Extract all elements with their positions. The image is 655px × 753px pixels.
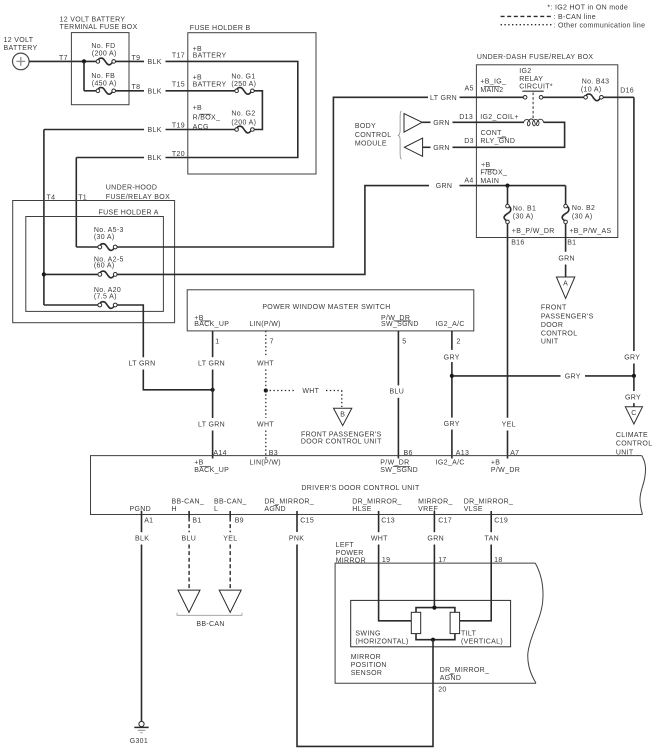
- svg-text:MODULE: MODULE: [355, 140, 387, 147]
- svg-text:A4: A4: [464, 178, 473, 185]
- pin label +B_PW_DR: [512, 228, 555, 235]
- svg-text:BACK_UP: BACK_UP: [194, 321, 229, 328]
- svg-text:A: A: [563, 281, 568, 288]
- svg-text:(30 A): (30 A): [513, 214, 534, 221]
- svg-text:T4: T4: [47, 195, 56, 202]
- wire GRY down to triangle C: [625, 376, 641, 407]
- pin label CONT RLY_GND: [480, 130, 515, 145]
- wire T15 to fuse G1: [188, 90, 235, 92]
- svg-text:BACK_UP: BACK_UP: [194, 467, 229, 474]
- BCM output triangle (D13): [404, 114, 422, 133]
- svg-text:GRY: GRY: [565, 373, 581, 380]
- svg-text:BLK: BLK: [135, 536, 149, 543]
- svg-text:RLY_GND: RLY_GND: [480, 138, 515, 145]
- svg-text:CLIMATE: CLIMATE: [616, 432, 648, 439]
- fuse No.G2 (200 A): [231, 111, 256, 133]
- svg-text:DOOR CONTROL UNIT: DOOR CONTROL UNIT: [301, 438, 382, 445]
- svg-text:POSITION: POSITION: [351, 662, 387, 669]
- svg-text:No. B43: No. B43: [582, 78, 610, 85]
- svg-text:SWING: SWING: [355, 631, 380, 638]
- svg-text:(10 A): (10 A): [581, 87, 602, 94]
- BB-CAN arrow triangle (YEL): [219, 590, 241, 612]
- label front passenger's door control unit (B): [301, 431, 382, 445]
- svg-text:MIRROR: MIRROR: [336, 558, 366, 565]
- fuse No.G1 (250 A): [231, 74, 256, 95]
- svg-text:IG2_A/C: IG2_A/C: [436, 321, 465, 328]
- svg-text:+B: +B: [481, 162, 490, 169]
- svg-text:12 VOLT BATTERY: 12 VOLT BATTERY: [60, 16, 126, 23]
- svg-text:PNK: PNK: [289, 536, 304, 543]
- svg-text:B16: B16: [511, 239, 524, 246]
- svg-text:UNDER-DASH FUSE/RELAY BOX: UNDER-DASH FUSE/RELAY BOX: [477, 54, 594, 61]
- label front passenger's door control unit (A): [541, 304, 594, 345]
- pin label +B BACK_UP (pin1): [194, 315, 229, 328]
- svg-text:MAIN: MAIN: [480, 178, 499, 185]
- junction dot T4/A2-5: [42, 272, 46, 276]
- svg-text:YEL: YEL: [223, 536, 237, 543]
- svg-text:POWER WINDOW MASTER SWITCH: POWER WINDOW MASTER SWITCH: [262, 304, 390, 311]
- svg-text:BB-CAN_: BB-CAN_: [172, 498, 205, 505]
- pin label +B BACK_UP (A14): [194, 459, 229, 474]
- svg-text:CONT_: CONT_: [481, 130, 506, 137]
- wire BLK T8-T15: [147, 88, 187, 95]
- svg-text:BLK: BLK: [147, 155, 161, 162]
- wire to fuse B2: [565, 186, 567, 205]
- svg-text:T1: T1: [78, 195, 87, 202]
- svg-text:H: H: [172, 506, 177, 513]
- wire C15 PNK loop to pin 20: [289, 511, 433, 746]
- wire pin 20 down: [432, 640, 434, 684]
- left power mirror box: [335, 542, 543, 683]
- tilt potentiometer: [450, 612, 460, 633]
- wire fuse FD to T9: [116, 60, 145, 62]
- wire G1 to G2: [254, 91, 262, 130]
- wire pin1 LT GRN to A14: [198, 331, 225, 459]
- wire A4 internal rail: [476, 185, 565, 187]
- svg-text:IG2_A/C: IG2_A/C: [436, 459, 465, 466]
- under-hood fuse/relay box: [13, 185, 175, 323]
- svg-text:17: 17: [438, 557, 446, 564]
- pin label DR_MIRROR_AGND (C15): [264, 498, 314, 513]
- svg-text:(250 A): (250 A): [231, 81, 256, 88]
- wire fuse B1 to B16: [507, 224, 509, 238]
- svg-text:5: 5: [402, 338, 406, 345]
- wire fuse FB to T8: [116, 90, 145, 92]
- svg-text:+B_P/W_DR: +B_P/W_DR: [512, 228, 555, 235]
- svg-text:LIN(P/W): LIN(P/W): [250, 459, 281, 466]
- svg-text:WHT: WHT: [257, 361, 274, 368]
- pin label P/W_DR SW_SGND (pin5): [381, 315, 419, 328]
- wire BLK T19 out: [44, 127, 188, 134]
- wire BLK T9-T17: [147, 59, 187, 66]
- svg-text:IG2_COIL+: IG2_COIL+: [480, 114, 519, 121]
- svg-text:20: 20: [438, 687, 446, 694]
- svg-text:DR_MIRROR_: DR_MIRROR_: [352, 498, 402, 505]
- svg-text:MIRROR_: MIRROR_: [418, 498, 453, 505]
- svg-text:VLSE: VLSE: [464, 506, 483, 513]
- pin label DR_MIRROR_AGND (20): [440, 667, 490, 682]
- svg-text:No. B1: No. B1: [513, 205, 536, 212]
- svg-text:TAN: TAN: [485, 536, 499, 543]
- wire pin17 to top rail: [433, 563, 435, 608]
- svg-text:B: B: [340, 412, 345, 419]
- svg-text:CIRCUIT*: CIRCUIT*: [519, 84, 553, 91]
- relay IG2 contact: [519, 68, 553, 119]
- svg-text:UNIT: UNIT: [541, 338, 559, 345]
- svg-text:GRY: GRY: [444, 354, 460, 361]
- swing potentiometer: [411, 612, 420, 633]
- wire A5-3 to A5 (LT GRN): [117, 95, 476, 247]
- svg-text:CONTROL: CONTROL: [616, 441, 653, 448]
- svg-text:: B-CAN line: : B-CAN line: [554, 14, 596, 21]
- under-dash fuse/relay box: [476, 54, 617, 238]
- svg-text:L: L: [214, 506, 218, 513]
- wire pin2 GRY to A13: [444, 331, 460, 459]
- svg-text:PGND: PGND: [130, 506, 152, 513]
- svg-text:LT GRN: LT GRN: [198, 422, 225, 429]
- pin label +B BATTERY (T17): [193, 46, 227, 60]
- svg-text:LT GRN: LT GRN: [198, 361, 225, 368]
- svg-text:(60 A): (60 A): [94, 263, 115, 270]
- svg-text:A5: A5: [465, 86, 474, 93]
- svg-text:BODY: BODY: [355, 123, 376, 130]
- wire D16 down right side: [624, 97, 640, 376]
- svg-text:FRONT PASSENGER'S: FRONT PASSENGER'S: [301, 431, 382, 438]
- wire B43 to D16: [603, 96, 634, 98]
- svg-text:A1: A1: [144, 517, 153, 524]
- svg-text:+B: +B: [491, 459, 500, 466]
- junction dot A4 rail: [505, 184, 509, 188]
- svg-text:7: 7: [270, 338, 274, 345]
- junction dot GRY pin2: [450, 374, 454, 378]
- svg-text:C17: C17: [438, 517, 452, 524]
- fuse holder B box: [188, 25, 316, 174]
- label mirror position sensor: [351, 654, 387, 677]
- pin label +B BATTERY (T15): [193, 74, 227, 88]
- fuse holder A box: [26, 209, 164, 311]
- wire pin7 WHT dotted to B3: [257, 331, 274, 459]
- svg-text:No. B2: No. B2: [572, 205, 595, 212]
- svg-text:DRIVER'S DOOR CONTROL UNIT: DRIVER'S DOOR CONTROL UNIT: [301, 485, 420, 492]
- svg-text:No. G2: No. G2: [231, 111, 255, 118]
- wire A2-5 to A4 (GRN): [117, 183, 476, 274]
- svg-text:+B_P/W_AS: +B_P/W_AS: [569, 228, 611, 235]
- wire contact to fuse B43: [543, 96, 584, 98]
- wire pin19 into sensor: [379, 563, 412, 621]
- wire A20 LT GRN down: [117, 305, 213, 390]
- pin label DR_MIRROR_VLSE (C19): [464, 498, 514, 513]
- svg-text:BLU: BLU: [389, 388, 404, 395]
- svg-text:GRN: GRN: [558, 255, 575, 262]
- svg-text:SENSOR: SENSOR: [351, 670, 383, 677]
- svg-text:(7.5 A): (7.5 A): [94, 294, 117, 301]
- connector triangle B: [334, 408, 352, 425]
- svg-text:No. FD: No. FD: [91, 43, 115, 50]
- svg-text:B1: B1: [192, 517, 201, 524]
- svg-text:BLK: BLK: [147, 88, 161, 95]
- svg-text:D16: D16: [620, 87, 634, 94]
- svg-text:(HORIZONTAL): (HORIZONTAL): [355, 639, 408, 646]
- pin label +B R/BOX_ACG: [193, 105, 221, 131]
- svg-text:No. A5-3: No. A5-3: [94, 227, 124, 234]
- svg-text:*: IG2 HOT in ON mode: *: IG2 HOT in ON mode: [547, 5, 628, 12]
- svg-text:FRONT: FRONT: [541, 304, 567, 311]
- svg-text:GRN: GRN: [427, 536, 444, 543]
- pin label +B P/W_DR (A7): [491, 459, 520, 474]
- pin label +B_P/W_AS: [569, 228, 611, 235]
- pin label P/W_DR SW_SGND (B6): [380, 459, 418, 474]
- svg-text:F/BOX_: F/BOX_: [480, 170, 507, 177]
- fuse No.A20 (7.5A): [44, 287, 121, 308]
- svg-text:+B: +B: [193, 74, 202, 81]
- svg-text:(450 A): (450 A): [92, 80, 117, 87]
- svg-text:2: 2: [457, 338, 461, 345]
- wire C19 TAN to pin 18: [485, 511, 499, 563]
- svg-text:G301: G301: [130, 738, 148, 745]
- svg-text:DR_MIRROR_: DR_MIRROR_: [464, 498, 514, 505]
- svg-text:A7: A7: [510, 450, 519, 457]
- wire A1 BLK to ground: [135, 511, 149, 721]
- wire T19 down to T4: [43, 130, 45, 306]
- svg-text:UNDER-HOOD: UNDER-HOOD: [106, 185, 158, 192]
- BCM input triangle (D3): [404, 138, 422, 156]
- svg-text:LT GRN: LT GRN: [128, 361, 155, 368]
- svg-text:(30 A): (30 A): [572, 213, 593, 220]
- svg-text:GRY: GRY: [625, 394, 641, 401]
- pin label MIRROR_VREF (C17): [418, 498, 453, 513]
- relay coil IG2: [524, 119, 544, 126]
- svg-text:DR_MIRROR_: DR_MIRROR_: [264, 498, 314, 505]
- svg-text:1: 1: [215, 338, 219, 345]
- svg-text:FUSE HOLDER A: FUSE HOLDER A: [99, 209, 159, 216]
- wire C13 WHT to pin 19: [371, 511, 388, 563]
- svg-text:C: C: [631, 410, 636, 417]
- fuse No.A5-3 (30A): [76, 227, 123, 251]
- svg-text:(30 A): (30 A): [94, 234, 115, 241]
- legend B-CAN dashed sample: [501, 14, 596, 21]
- svg-text:WHT: WHT: [302, 388, 319, 395]
- svg-text:YEL: YEL: [502, 421, 516, 428]
- svg-text:(200 A): (200 A): [231, 119, 256, 126]
- pin label BB-CAN_H (B1): [172, 498, 205, 513]
- connector triangle C: [625, 407, 642, 424]
- svg-text:HLSE: HLSE: [352, 506, 372, 513]
- wire B1 BLU dashed: [181, 511, 196, 589]
- fuse No.FB (450 A): [91, 73, 116, 94]
- svg-text:R/BOX_: R/BOX_: [193, 115, 221, 122]
- svg-text:MAIN2: MAIN2: [480, 87, 503, 94]
- svg-text:WHT: WHT: [371, 536, 388, 543]
- svg-text:BATTERY: BATTERY: [4, 45, 38, 52]
- svg-text:BLK: BLK: [147, 59, 161, 66]
- svg-text:BB-CAN_: BB-CAN_: [214, 498, 247, 505]
- svg-text:BATTERY: BATTERY: [193, 81, 227, 88]
- junction dot T7 branch: [82, 59, 86, 63]
- svg-text:LEFT: LEFT: [336, 542, 355, 549]
- svg-text:GRN: GRN: [436, 183, 453, 190]
- junction dot LT GRN / pin1: [211, 388, 215, 392]
- svg-text:No. G1: No. G1: [231, 74, 255, 81]
- wire A5 to relay contact: [476, 96, 523, 98]
- wire BLK T20 out: [76, 155, 188, 162]
- fuse No.A2-5 (60A): [44, 256, 124, 278]
- wire B9 YEL dashed: [223, 511, 237, 589]
- wire G2 to T19: [188, 129, 235, 131]
- svg-text:GRY: GRY: [624, 354, 640, 361]
- svg-text:T17: T17: [172, 53, 185, 60]
- svg-text:IG2: IG2: [519, 68, 531, 75]
- svg-text:GRN: GRN: [433, 120, 450, 127]
- wire T17 internal to T20: [188, 61, 298, 157]
- legend other-communication dotted sample: [501, 22, 646, 29]
- label swing (horizontal): [355, 631, 408, 646]
- svg-text:C15: C15: [300, 517, 314, 524]
- svg-text:GRN: GRN: [433, 145, 450, 152]
- svg-text:T8: T8: [132, 84, 141, 91]
- junction dot GRY right: [632, 374, 636, 378]
- svg-text:SW_SGND: SW_SGND: [380, 467, 418, 474]
- svg-text:TERMINAL FUSE BOX: TERMINAL FUSE BOX: [60, 24, 138, 31]
- svg-text:: Other communication line: : Other communication line: [554, 22, 646, 29]
- svg-text:B1: B1: [567, 239, 576, 246]
- svg-text:+B: +B: [193, 105, 202, 112]
- power window master switch box: [187, 290, 474, 331]
- svg-text:WHT: WHT: [257, 422, 274, 429]
- svg-text:DR_MIRROR_: DR_MIRROR_: [440, 667, 490, 674]
- pin label +B_IG MAIN2: [480, 79, 506, 95]
- wire fuse B2 to B1 pin: [565, 224, 567, 238]
- svg-text:ACG: ACG: [193, 124, 209, 131]
- wire WHT dotted branch to triangle B: [266, 388, 342, 407]
- wire C17 GRN to pin 17: [427, 511, 444, 563]
- svg-text:D13: D13: [459, 114, 473, 121]
- svg-text:12 VOLT: 12 VOLT: [4, 37, 34, 44]
- pin label BB-CAN_L (B9): [214, 498, 247, 513]
- svg-text:DOOR: DOOR: [541, 322, 563, 329]
- svg-text:+B_IG_: +B_IG_: [480, 79, 506, 86]
- svg-text:No. FB: No. FB: [91, 73, 115, 80]
- label climate control unit: [616, 432, 653, 456]
- junction dot WHT branch: [264, 388, 268, 392]
- svg-text:LT GRN: LT GRN: [430, 95, 457, 102]
- wire GRN D13: [422, 120, 476, 127]
- wire battery to T7: [29, 60, 96, 62]
- pin label DR_MIRROR_HLSE (C13): [352, 498, 402, 513]
- svg-text:C13: C13: [381, 517, 395, 524]
- svg-text:T15: T15: [172, 82, 185, 89]
- BB-CAN underline bracket: [177, 613, 242, 616]
- ground G301: [130, 721, 149, 745]
- wire pin18 into sensor: [460, 563, 492, 621]
- label tilt (vertical): [461, 631, 503, 646]
- mirror position sensor box: [351, 600, 511, 646]
- svg-text:AGND: AGND: [440, 675, 462, 682]
- svg-text:(200 A): (200 A): [92, 50, 117, 57]
- wire to fuse B1: [507, 186, 509, 205]
- svg-text:FUSE HOLDER B: FUSE HOLDER B: [190, 25, 251, 32]
- sensor top rail: [416, 608, 455, 613]
- svg-text:B9: B9: [235, 517, 244, 524]
- wire pin5 BLU to B6: [389, 331, 404, 459]
- svg-text:C19: C19: [494, 517, 508, 524]
- svg-text:19: 19: [382, 557, 390, 564]
- body control module bracket: [355, 111, 402, 160]
- wire B16 YEL down to A7: [502, 238, 516, 459]
- svg-text:18: 18: [494, 557, 502, 564]
- svg-text:BATTERY: BATTERY: [193, 52, 227, 59]
- sensor bottom rail: [416, 634, 455, 640]
- junction dot top rail: [432, 606, 436, 610]
- fuse No.B43 (10 A): [581, 78, 609, 100]
- svg-text:AGND: AGND: [264, 506, 286, 513]
- svg-text:LIN(P/W): LIN(P/W): [249, 321, 280, 328]
- svg-text:TILT: TILT: [461, 631, 477, 638]
- svg-text:CONTROL: CONTROL: [541, 331, 578, 338]
- svg-text:MIRROR: MIRROR: [351, 654, 381, 661]
- svg-text:(VERTICAL): (VERTICAL): [461, 639, 503, 646]
- BB-CAN arrow triangle (BLU): [178, 590, 200, 612]
- svg-text:T19: T19: [172, 123, 185, 130]
- wire coil to D3 row: [476, 122, 564, 147]
- svg-text:T7: T7: [59, 55, 68, 62]
- wire GRY horizontal: [452, 373, 634, 380]
- fuse No.B2 (30A) vertical: [562, 204, 595, 223]
- svg-text:POWER: POWER: [336, 550, 364, 557]
- driver's door control unit box: [91, 456, 646, 515]
- svg-text:BLK: BLK: [147, 127, 161, 134]
- connector triangle A: [556, 277, 574, 298]
- fuse No.B1 (30A) vertical: [504, 204, 536, 223]
- wire GRN D3: [423, 145, 477, 152]
- svg-text:P/W_DR: P/W_DR: [380, 459, 409, 466]
- legend note IG2: [547, 5, 628, 12]
- svg-text:BB-CAN: BB-CAN: [196, 621, 224, 628]
- pin label +B F/BOX_MAIN: [480, 162, 507, 185]
- wire T20 down to T1: [75, 158, 77, 248]
- svg-text:T9: T9: [132, 55, 141, 62]
- wire branch to fuse FB: [83, 61, 85, 90]
- fuse No.FD (200 A): [91, 43, 116, 65]
- svg-text:FUSE/RELAY BOX: FUSE/RELAY BOX: [106, 194, 170, 201]
- svg-text:GRY: GRY: [444, 421, 460, 428]
- wire B1 GRN down to triangle A: [558, 238, 575, 278]
- battery 12V: [4, 37, 38, 70]
- svg-text:P/W_DR: P/W_DR: [491, 467, 520, 474]
- 12 volt battery terminal fuse box: [60, 16, 138, 104]
- svg-text:BLU: BLU: [181, 536, 196, 543]
- junction dot bottom rail: [431, 638, 435, 642]
- svg-text:PASSENGER'S: PASSENGER'S: [541, 313, 594, 320]
- wire D13 to relay coil: [476, 121, 524, 123]
- svg-text:+B: +B: [194, 459, 203, 466]
- svg-text:SW_SGND: SW_SGND: [381, 321, 419, 328]
- svg-text:CONTROL: CONTROL: [355, 132, 392, 139]
- svg-text:D3: D3: [464, 138, 474, 145]
- svg-text:RELAY: RELAY: [519, 76, 543, 83]
